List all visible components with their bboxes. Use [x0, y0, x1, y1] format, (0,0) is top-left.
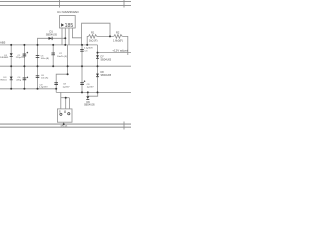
branch row2 x24.4 — [23, 45, 25, 66]
wire jog to C8 — [56, 74, 67, 89]
junction node dot D1 wire pin2 — [64, 37, 66, 39]
wire pin 3 of U1 — [68, 28, 70, 45]
wire pin 1 of U1 — [61, 28, 63, 45]
junction node dot rail C x11.2 — [10, 88, 12, 90]
wire U2 pin b — [65, 98, 67, 109]
diode D2 symbol row2 x11.2 — [10, 53, 13, 56]
junction node dot jog — [67, 73, 69, 75]
svg-text:1.2μ/25V: 1.2μ/25V — [39, 87, 48, 89]
border tick bottom x124 — [123, 122, 125, 130]
capacitor C9 symbol row3 x82.2 — [80, 81, 84, 84]
wire U2 bottom pin to frame — [63, 122, 65, 124]
junction node dot U2 pin on frame — [63, 123, 65, 125]
branch ground path x67.6 — [67, 45, 69, 74]
stub below rail at R2 corner — [127, 53, 129, 55]
svg-text:2.2μ/50V: 2.2μ/50V — [84, 48, 93, 50]
svg-text:1μ/25V: 1μ/25V — [87, 87, 95, 89]
capacitor C8 symbol row3 x56.2 — [54, 81, 58, 84]
U1 internal glyphs — [61, 23, 64, 27]
rail C y=88.8 — [0, 88, 56, 90]
svg-text:C9: C9 — [87, 84, 91, 86]
branch row2 x82 — [81, 45, 83, 66]
svg-text:10n (K): 10n (K) — [41, 77, 48, 79]
svg-text:SBD4U05: SBD4U05 — [46, 33, 58, 36]
svg-text:185: 185 — [65, 23, 74, 29]
wire U2 pin c — [68, 98, 70, 109]
svg-text:1.6kΩ(F): 1.6kΩ(F) — [113, 40, 123, 43]
resistor R1 zigzag — [89, 35, 97, 39]
border frame top line 1 — [0, 1, 131, 3]
svg-text:R2: R2 — [116, 31, 120, 35]
svg-text:220μ: 220μ — [16, 80, 22, 82]
wire pin 2 of U1 — [64, 28, 66, 45]
svg-text:SBD4U05: SBD4U05 — [84, 103, 95, 106]
wire vertical x81.6 to rail — [81, 38, 83, 45]
U2 internal glyphs — [60, 113, 62, 115]
branch row3 x82.2 — [81, 66, 83, 92]
branch row2 x11.2 — [10, 45, 12, 66]
svg-text:100n (B): 100n (B) — [41, 58, 50, 60]
diode D7 symbol — [96, 55, 99, 58]
svg-text:10n/1k (K): 10n/1k (K) — [57, 56, 67, 58]
junction node dot rail A x53.2 — [52, 44, 54, 46]
svg-text:SBD4U05: SBD4U05 — [101, 58, 112, 61]
IC U1 box — [60, 16, 76, 29]
branch row2 x53.2 — [52, 45, 54, 66]
svg-text:AB5: AB5 — [0, 41, 6, 45]
svg-text:SBD4U05: SBD4U05 — [101, 74, 112, 77]
diode D7 vertical wire — [97, 45, 99, 66]
junction node dot rail B x11.2 — [10, 65, 12, 67]
diode D3 symbol row3 x11.2 — [10, 77, 13, 80]
svg-text:+12V adjust: +12V adjust — [112, 49, 128, 53]
diode D9 symbol — [86, 96, 89, 99]
junction node dot rail A x11.2 — [10, 44, 12, 46]
capacitor C4 symbol row3 x24.4 — [23, 77, 27, 80]
junction node dot rail C x37.5 — [37, 88, 39, 90]
capacitor C2 symbol row2 x53.2 — [51, 52, 55, 55]
border tick top x124 — [123, 0, 125, 8]
svg-text:C3: C3 — [85, 50, 89, 52]
capacitor C5 symbol row2 x37.5 — [36, 54, 40, 57]
junction node dot rail C end — [55, 88, 57, 90]
junction node dot rail B x37.5 — [37, 65, 39, 67]
junction node dot R1R2 node — [109, 35, 111, 37]
capacitor C1 symbol row2 x24.4 — [23, 53, 27, 56]
junction node dot rail B x82 — [81, 65, 83, 67]
wire diode D1 horizontal — [38, 38, 66, 45]
junction node dot rail B x24.4 — [23, 65, 25, 67]
junction node dot rail C x24.4 — [23, 88, 25, 90]
junction node dot rail A x37.5 — [37, 44, 39, 46]
svg-text:R1: R1 — [91, 31, 95, 35]
border tick top x59 — [59, 0, 61, 8]
wire resistor row: R1 left corner — [87, 36, 88, 45]
wire rail C drop to rail D — [55, 89, 57, 93]
junction node dot rail A x87.2 — [86, 44, 88, 46]
junction node dot rail D x97.5 — [97, 91, 99, 93]
svg-text:C8: C8 — [63, 84, 67, 86]
rail B y=66.2 — [0, 65, 131, 67]
branch row3 x11.2 — [10, 66, 12, 89]
branch row3 x37.5 — [37, 66, 39, 89]
main rail A y=44.9 — [0, 44, 98, 46]
svg-text:24DBR5: 24DBR5 — [0, 57, 9, 59]
junction node dot bottom wire x65.7 — [65, 97, 67, 99]
wire D9 return loop — [88, 92, 98, 96]
junction node dot rail B x97.5 — [97, 65, 99, 67]
junction node dot +12V rail x97.5 — [97, 52, 99, 54]
junction node dot rail D x87.8 — [87, 91, 89, 93]
wire U2 pin header — [61, 97, 70, 99]
border frame bottom line 1 — [0, 123, 131, 125]
junction node dot rail A x24.4 — [23, 44, 25, 46]
capacitor C3 symbol row2 x82 — [80, 48, 84, 51]
svg-text:RD5.6: RD5.6 — [1, 80, 8, 82]
branch row2 x37.5 — [37, 45, 39, 66]
svg-text:1kΩ (F): 1kΩ (F) — [89, 40, 98, 43]
border frame top line 2 — [0, 5, 131, 7]
junction node dot rail B x67.6 — [67, 65, 69, 67]
svg-text:8: 8 — [64, 110, 66, 114]
junction node dot rail D x82.2 — [81, 91, 83, 93]
svg-text:220μ/25V: 220μ/25V — [16, 57, 26, 59]
branch row3 x24.4 — [23, 66, 25, 89]
diode D8 symbol — [96, 74, 99, 77]
+12V rail — [98, 52, 132, 54]
diode D1 symbol — [49, 37, 52, 40]
wire pin 4 of U1 staple to R1R2 node — [72, 23, 110, 38]
capacitor C6 symbol row3 x37.5 — [36, 74, 40, 77]
junction node dot rail A x82 — [81, 44, 83, 46]
svg-text:U1 NJM2360AD: U1 NJM2360AD — [57, 10, 80, 14]
wire U2 pin a riser — [60, 92, 62, 109]
rail D y=92.4 — [56, 91, 131, 93]
svg-text:S: S — [59, 110, 61, 114]
border frame bottom line 2 — [0, 126, 131, 128]
svg-text:1μ/25V: 1μ/25V — [63, 86, 71, 88]
diode D8 vertical wire — [97, 66, 99, 92]
wire R2 right corner down — [122, 36, 128, 52]
diode D9 stub below rail D — [87, 92, 89, 96]
junction node dot rail A x65.3 — [64, 44, 66, 46]
wire R1 to node — [97, 35, 114, 37]
resistor R2 zigzag — [114, 35, 122, 39]
svg-text:SR_05: SR_05 — [61, 125, 68, 127]
junction node dot rail B x53.2 — [52, 65, 54, 67]
component U2 box — [57, 109, 72, 122]
